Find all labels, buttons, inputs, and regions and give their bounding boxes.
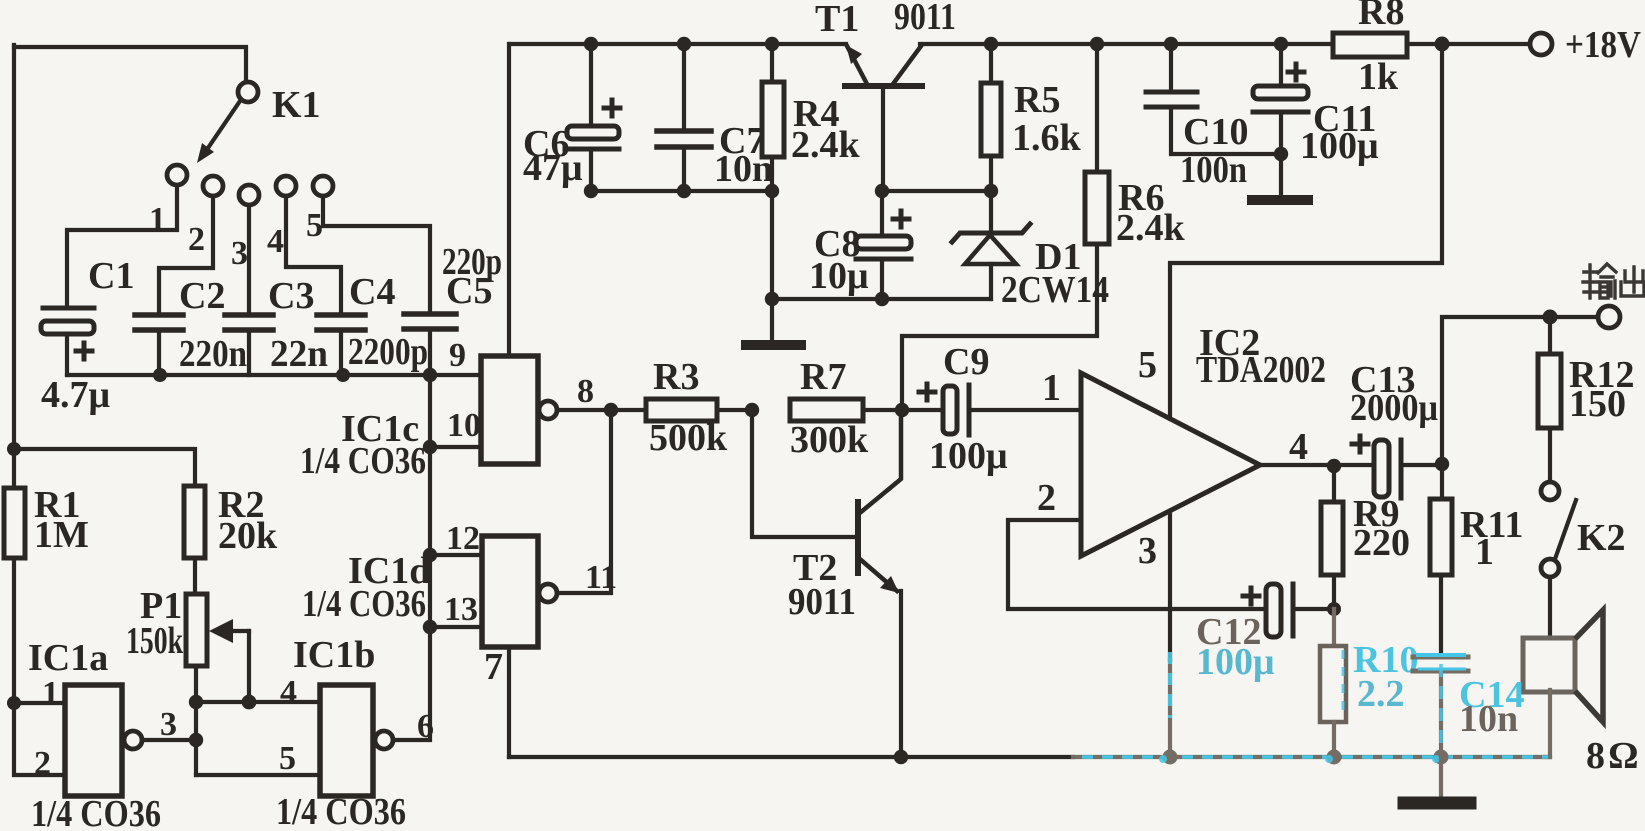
wire ground bus grey section: [1073, 755, 1550, 759]
node output/R12: [1543, 310, 1558, 325]
svg-text:K1: K1: [272, 84, 321, 126]
svg-text:1.6k: 1.6k: [1012, 117, 1082, 159]
gate IC1c: [481, 356, 557, 464]
node C6 rail: [584, 37, 598, 51]
svg-text:C2: C2: [179, 275, 225, 317]
wire bus C1..C5 bottoms to pin 9 of IC1c: [67, 373, 481, 377]
svg-text:6: 6: [417, 708, 434, 745]
op-amp IC2 triangle: [1081, 373, 1260, 556]
wire C1 bottom: [65, 335, 69, 375]
wire top-left from left rail to K1 pole: [14, 47, 246, 81]
wire T1 base to C8: [880, 191, 884, 236]
wire rail R8 to +18V terminal: [1407, 42, 1529, 46]
node output/R9: [1327, 459, 1341, 473]
node R5 bottom: [984, 184, 998, 198]
node C9/R6/T2 collector: [895, 403, 909, 417]
resistor R12: [1538, 317, 1561, 481]
switch K1 blade with arrowhead: [197, 101, 240, 163]
node P1/pin4: [189, 695, 203, 709]
wire pin 4: [196, 700, 320, 704]
wire pin 10: [430, 445, 481, 449]
node C4-bus: [336, 368, 350, 382]
transistor T2: [752, 410, 901, 757]
svg-text:C5: C5: [446, 270, 492, 312]
capacitor C12: [1243, 584, 1334, 637]
potentiometer P1: [186, 594, 207, 666]
node pin12: [423, 548, 437, 562]
resistor R7: [790, 399, 902, 421]
K1 contact 3: [239, 185, 259, 205]
svg-text:3: 3: [160, 706, 177, 743]
K1 contact 4: [276, 176, 296, 196]
node C14/ground bus: [1434, 750, 1449, 765]
zener diode D1: [952, 191, 1030, 299]
wire pin 8 output: [557, 408, 611, 412]
wire P1 bottom: [194, 666, 198, 775]
svg-text:9: 9: [449, 337, 466, 374]
node pin10: [423, 440, 437, 454]
gate IC1a: [65, 685, 142, 796]
svg-text:5: 5: [1138, 344, 1157, 386]
wire pin 7 to ground bus: [507, 647, 511, 757]
wire speaker to bus (grey): [1544, 690, 1550, 757]
wire R1 bottom to IC1a inputs: [12, 558, 16, 703]
svg-text:1: 1: [42, 675, 59, 712]
node C7 bottom: [677, 184, 691, 198]
wire IC2 pin 3 to ground bus: [1168, 511, 1172, 660]
resistor R10 (grey): [1320, 609, 1346, 757]
svg-text:IC1a: IC1a: [28, 637, 108, 679]
node R4 rail: [765, 37, 779, 51]
wire pin 11 output: [557, 410, 611, 593]
svg-text:22n: 22n: [270, 333, 328, 375]
svg-text:5: 5: [279, 740, 296, 777]
wire R2 to P1: [193, 558, 197, 594]
node C7 rail: [677, 37, 691, 51]
capacitor C4: [317, 315, 365, 330]
wire C2 bottom: [157, 332, 161, 375]
svg-text:10n: 10n: [1459, 698, 1518, 740]
capacitor C3: [225, 315, 273, 330]
svg-text:11: 11: [585, 559, 617, 596]
wire K2 to speaker: [1548, 577, 1552, 640]
wire C3 bottom: [247, 332, 251, 375]
node C10 rail: [1164, 37, 1178, 51]
svg-text:2CW14: 2CW14: [1001, 269, 1109, 311]
svg-text:IC1b: IC1b: [293, 634, 375, 676]
wire contact4 to C4: [286, 197, 341, 313]
wire bus to ground G3 (grey): [1439, 757, 1443, 797]
wire branch to R2: [14, 449, 195, 486]
svg-text:C3: C3: [268, 275, 314, 317]
ground G1: [746, 340, 801, 350]
K1 contact 1: [167, 165, 187, 185]
wire IC2 pin 2 feedback: [1008, 520, 1266, 609]
wire IC2 pin 3 lower (grey): [1168, 660, 1172, 757]
speaker: [1523, 610, 1603, 722]
resistor R3: [611, 399, 752, 421]
wire pin 2: [14, 703, 65, 775]
node wiper/pin4: [242, 695, 257, 710]
svg-text:100μ: 100μ: [929, 435, 1008, 477]
svg-text:R5: R5: [1014, 79, 1060, 121]
svg-text:12: 12: [446, 520, 480, 557]
K1 contact 2: [203, 176, 223, 196]
resistor R6: [902, 44, 1109, 410]
svg-text:+18V: +18V: [1565, 24, 1641, 66]
wire ground bus black section: [509, 755, 1073, 759]
wire top rail right section: [920, 42, 1333, 46]
svg-text:1: 1: [149, 201, 166, 238]
svg-text:C9: C9: [943, 341, 989, 383]
capacitor C14 (grey/cyan): [1413, 655, 1468, 757]
svg-text:4.7μ: 4.7μ: [41, 374, 111, 416]
node C8 bottom: [875, 292, 889, 306]
node R8/IC2 supply: [1435, 37, 1450, 52]
svg-text:K2: K2: [1577, 517, 1626, 559]
svg-text:R8: R8: [1358, 0, 1404, 33]
svg-text:2200p: 2200p: [348, 331, 428, 373]
svg-text:7: 7: [484, 646, 503, 688]
svg-text:5: 5: [306, 207, 323, 244]
node R9/C12/R10 feedback: [1327, 602, 1341, 616]
node pin8: [604, 403, 618, 417]
wire left rail vertical: [12, 45, 16, 488]
capacitor C13: [1352, 436, 1442, 498]
svg-text:10μ: 10μ: [809, 255, 869, 297]
resistor R1: [4, 488, 25, 558]
svg-text:2.4k: 2.4k: [791, 124, 861, 166]
node pin13: [423, 620, 437, 634]
switch K1 pole terminal: [238, 82, 258, 102]
svg-text:300k: 300k: [790, 419, 869, 461]
svg-text:2: 2: [34, 745, 51, 782]
svg-text:10: 10: [447, 407, 481, 444]
svg-text:8: 8: [577, 373, 594, 410]
capacitor C8: [856, 211, 911, 299]
node R1/R2 branch: [7, 442, 21, 456]
node C2-bus: [153, 368, 167, 382]
terminal output: [1598, 306, 1620, 328]
svg-text:1/4 CO36: 1/4 CO36: [302, 583, 426, 625]
svg-text:100μ: 100μ: [1300, 125, 1379, 167]
label shuchu (output): [1583, 264, 1644, 298]
wire pin 6 output to bus: [393, 627, 430, 740]
resistor R11: [1430, 464, 1452, 655]
resistor R4: [762, 44, 784, 191]
wire line B (to C8, D1 anode): [772, 297, 991, 301]
node C13/R11/output riser: [1435, 457, 1449, 471]
K1 contact 5: [313, 176, 333, 196]
wire contact3 to C3: [247, 206, 251, 313]
node R10 bus: [1327, 750, 1342, 765]
wire R4 node down to ground node: [770, 191, 774, 299]
svg-text:500k: 500k: [649, 417, 728, 459]
svg-text:9011: 9011: [894, 0, 956, 38]
svg-text:150k: 150k: [126, 620, 184, 662]
wire pin 13: [430, 625, 482, 629]
svg-text:2.4k: 2.4k: [1116, 207, 1186, 249]
node pin3 bus: [1163, 750, 1178, 765]
cyan node tints: [1159, 755, 1440, 763]
wire vertical bus to gates: [428, 375, 432, 630]
svg-text:3: 3: [1138, 530, 1157, 572]
wire base node to R5/D1: [882, 189, 991, 193]
svg-text:4: 4: [280, 674, 297, 711]
node C10/C11 ground link: [1274, 147, 1288, 161]
svg-text:1M: 1M: [34, 514, 89, 556]
node pin3: [189, 733, 203, 747]
svg-text:C1: C1: [88, 255, 134, 297]
svg-text:1/4 CO36: 1/4 CO36: [276, 791, 406, 831]
switch K2: [1541, 482, 1576, 577]
svg-text:9011: 9011: [788, 581, 856, 623]
svg-text:C4: C4: [349, 271, 395, 313]
wire pin 12: [430, 553, 482, 557]
svg-text:150: 150: [1569, 383, 1626, 425]
svg-text:1: 1: [1475, 531, 1494, 573]
svg-text:3: 3: [231, 235, 248, 272]
terminal +18V: [1530, 33, 1552, 55]
capacitor C9: [902, 384, 1081, 435]
svg-text:4: 4: [1289, 426, 1308, 468]
svg-text:8 Ω: 8 Ω: [1586, 735, 1639, 777]
svg-text:C10: C10: [1183, 111, 1248, 153]
resistor R5: [981, 44, 1001, 191]
node R4 bottom: [765, 184, 779, 198]
svg-text:2.2: 2.2: [1357, 673, 1405, 715]
ground G3: [1404, 797, 1470, 810]
svg-text:1/4 CO36: 1/4 CO36: [31, 793, 161, 831]
ground G2: [1252, 195, 1308, 205]
wire pin 3 output: [142, 738, 196, 742]
wire top rail left section (to T1 emitter): [510, 42, 846, 46]
gate IC1d: [482, 536, 557, 647]
gate IC1b: [320, 685, 393, 796]
wire C4 bottom: [339, 332, 343, 375]
wire ground bus cyan dashes: [1082, 755, 1548, 759]
svg-text:R7: R7: [800, 356, 846, 398]
node C5-bus: [423, 368, 437, 382]
node ground branch: [765, 292, 779, 306]
wire contact2 to C2: [159, 197, 213, 313]
capacitor C7: [657, 44, 711, 191]
wire IC2 output pin 4: [1260, 463, 1375, 467]
resistor R8: [1333, 33, 1407, 57]
svg-text:47μ: 47μ: [523, 147, 583, 189]
svg-text:T1: T1: [815, 0, 859, 40]
wire +18V drop to IC2 pin5: [1170, 44, 1442, 418]
node T2 emitter bus: [894, 750, 908, 764]
svg-text:13: 13: [444, 591, 478, 628]
wire C5 bottom: [428, 331, 432, 375]
wire output riser: [1442, 317, 1598, 464]
svg-text:1: 1: [1042, 367, 1061, 409]
wire contact1 to C1: [67, 186, 177, 306]
node pin1: [7, 696, 21, 710]
transistor T1: [845, 45, 922, 191]
svg-text:TDA2002: TDA2002: [1196, 349, 1326, 391]
capacitor C1: [41, 308, 94, 359]
svg-text:R3: R3: [653, 356, 699, 398]
svg-text:2: 2: [188, 221, 205, 258]
capacitor C10: [1146, 44, 1281, 154]
svg-text:4: 4: [267, 223, 284, 260]
svg-text:100μ: 100μ: [1196, 641, 1275, 683]
node R6 rail: [1090, 37, 1104, 51]
wire bias node A (C6,C7,R4): [591, 189, 773, 193]
resistor R2: [184, 486, 205, 558]
svg-text:100n: 100n: [1180, 149, 1247, 191]
svg-text:220n: 220n: [179, 333, 247, 375]
svg-text:2: 2: [1037, 477, 1056, 519]
svg-text:220: 220: [1353, 522, 1410, 564]
wire IC1c top to +rail: [507, 44, 511, 356]
svg-text:2000μ: 2000μ: [1350, 387, 1438, 429]
capacitor C6: [565, 44, 620, 191]
wire contact5 to C5: [323, 197, 430, 313]
node T1 base: [875, 184, 889, 198]
svg-text:1/4 CO36: 1/4 CO36: [300, 440, 426, 482]
node R5 rail: [984, 37, 998, 51]
wire stub to ground G1: [770, 299, 774, 340]
svg-text:20k: 20k: [218, 515, 278, 557]
node R3/R7/T2 base: [745, 403, 759, 417]
node C6 bottom: [584, 184, 598, 198]
P1 wiper arrow: [209, 619, 249, 702]
capacitor C2: [135, 315, 183, 330]
capacitor C5: [404, 314, 456, 329]
resistor R9: [1321, 466, 1343, 610]
svg-text:1k: 1k: [1358, 56, 1399, 98]
node C11 rail: [1274, 37, 1288, 51]
wire pin 5: [196, 773, 320, 777]
capacitor C11: [1253, 44, 1308, 196]
wire pin 1: [14, 701, 65, 705]
